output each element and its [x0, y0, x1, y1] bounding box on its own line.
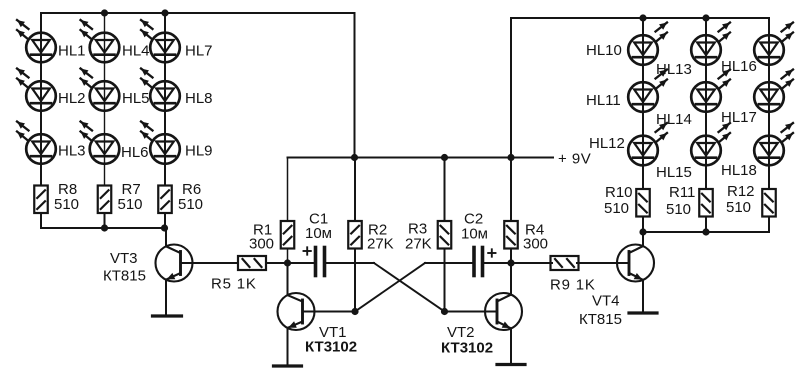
label R10 value	[604, 200, 629, 217]
label R4	[525, 222, 544, 239]
LED HL9	[141, 122, 180, 164]
wire left LED column 1	[40, 13, 42, 186]
svg-text:HL1: HL1	[58, 43, 86, 60]
label VT4	[592, 293, 620, 310]
node junction top-right col2	[702, 14, 709, 21]
label HL8	[185, 90, 213, 107]
wire rail link x511 to top bus	[510, 18, 512, 158]
svg-text:R12: R12	[727, 183, 755, 200]
svg-text:10м: 10м	[305, 225, 332, 242]
label R3 value 27K	[405, 236, 432, 253]
svg-text:HL9: HL9	[185, 143, 213, 160]
resistor R8 510	[34, 186, 48, 214]
resistor R7 510	[98, 186, 112, 214]
label HL6	[121, 144, 149, 161]
label +9V	[558, 151, 591, 168]
label R1 value 300	[249, 236, 274, 253]
svg-text:300: 300	[249, 236, 274, 253]
wire left LED column 3	[164, 13, 166, 186]
svg-text:HL11: HL11	[586, 92, 621, 109]
label R10	[605, 184, 633, 201]
wire node A to C1	[288, 262, 314, 264]
label VT2 type KT3102	[441, 340, 493, 357]
label HL11	[586, 92, 621, 109]
wire C1 to diagonal	[326, 262, 374, 264]
label R3	[408, 221, 427, 238]
LED HL11	[628, 70, 667, 112]
resistor R1 300	[281, 221, 295, 249]
transistor VT3 KT815	[153, 228, 193, 316]
svg-text:27K: 27K	[405, 236, 432, 253]
svg-text:510: 510	[54, 196, 79, 213]
node VT2 base junction	[441, 308, 448, 315]
label VT4 type KT815	[579, 311, 622, 328]
wire node B to R9	[511, 262, 552, 264]
LED HL12	[628, 123, 667, 165]
node VT1 base junction	[351, 308, 358, 315]
label R1	[253, 222, 272, 239]
label HL12	[589, 135, 625, 152]
wire diagonal C1 to VT2 base node	[374, 263, 445, 312]
svg-text:R10: R10	[605, 184, 633, 201]
node junction left bus col3 / VT3 collector	[161, 224, 168, 231]
wire rail to R4	[510, 158, 512, 222]
label R2 value 27K	[367, 236, 394, 253]
label HL17	[721, 109, 757, 126]
svg-text:510: 510	[726, 199, 751, 216]
wire right LED column 2	[705, 18, 707, 189]
wire R5 to node A	[266, 262, 288, 264]
svg-text:510: 510	[178, 196, 203, 213]
wire left LED column 2	[104, 13, 106, 186]
label R8	[58, 181, 77, 198]
svg-text:КТ3102: КТ3102	[305, 339, 357, 356]
resistor R11 510	[699, 189, 713, 217]
resistor R6 510	[158, 186, 172, 214]
resistor R2 27K	[348, 221, 362, 249]
transistor VT4 KT815	[617, 232, 657, 313]
wire right LED column 1	[642, 18, 644, 189]
label VT1 type KT3102	[305, 339, 357, 356]
svg-text:10м: 10м	[461, 226, 488, 243]
resistor R10 510	[636, 189, 650, 217]
label R11 value	[666, 201, 691, 218]
capacitor C1 10u plates	[316, 248, 325, 276]
label R8 value 510	[54, 196, 79, 213]
label C2	[464, 211, 483, 228]
LED HL5	[81, 69, 120, 111]
label R12 value	[726, 199, 751, 216]
label HL4	[122, 43, 150, 60]
label HL10	[586, 42, 622, 59]
LED HL10	[628, 23, 667, 65]
svg-text:КТ815: КТ815	[579, 311, 622, 328]
C2 polarity plus	[488, 249, 495, 256]
wire right LED column 3	[768, 18, 770, 189]
svg-text:КТ3102: КТ3102	[441, 340, 493, 357]
LED HL2	[17, 69, 56, 111]
LED HL17	[754, 70, 793, 112]
wire rail to R3	[444, 158, 446, 222]
label HL2	[58, 90, 86, 107]
svg-text:HL15: HL15	[656, 164, 692, 181]
svg-text:HL8: HL8	[185, 90, 213, 107]
LED HL6	[81, 122, 120, 164]
svg-text:510: 510	[604, 200, 629, 217]
label C1 value 10u	[305, 225, 332, 242]
svg-text:HL5: HL5	[122, 90, 150, 107]
svg-text:VT3: VT3	[110, 250, 138, 267]
node junction top-left col3	[161, 9, 168, 16]
node rail junction R2	[351, 154, 358, 161]
wire R9 to VT4 base	[577, 262, 629, 264]
label HL18	[721, 162, 757, 179]
node junction top-right col1	[639, 14, 646, 21]
svg-text:HL12: HL12	[589, 135, 625, 152]
resistor R12 510	[762, 189, 776, 217]
LED HL7	[141, 20, 180, 62]
wire to C2 left plate	[425, 262, 472, 264]
svg-text:КТ815: КТ815	[103, 268, 146, 285]
label VT3 type KT815	[103, 268, 146, 285]
svg-text:HL10: HL10	[586, 42, 622, 59]
svg-text:R9 1K: R9 1K	[550, 277, 596, 294]
wire left resistor bus	[41, 213, 166, 228]
node junction right bus col1 / VT4 collector	[639, 228, 646, 235]
label HL9	[185, 143, 213, 160]
wire +9V rail	[288, 157, 554, 159]
wire R1 to node A	[287, 249, 289, 264]
svg-text:HL16: HL16	[721, 58, 757, 75]
resistor R4 300	[504, 221, 518, 249]
svg-text:HL13: HL13	[656, 61, 692, 78]
svg-text:VT2: VT2	[447, 324, 475, 341]
label VT3	[110, 250, 138, 267]
node junction right bus col2	[702, 228, 709, 235]
resistor R3 27K	[438, 221, 452, 249]
svg-text:HL7: HL7	[185, 43, 213, 60]
node junction top-left col2	[101, 9, 108, 16]
label R9 1K	[550, 277, 596, 294]
wire R3 to VT2 base node	[444, 249, 446, 312]
node junction left bus col2	[101, 224, 108, 231]
wire right top bus	[511, 17, 769, 19]
LED HL15	[691, 123, 730, 165]
label R7	[122, 181, 141, 198]
LED HL8	[141, 69, 180, 111]
wire diagonal VT1 base node to C2	[355, 263, 425, 312]
svg-text:VT4: VT4	[592, 293, 620, 310]
label R2	[368, 222, 387, 239]
label VT1	[319, 324, 347, 341]
resistor R5 1K	[238, 256, 266, 270]
label HL3	[58, 143, 86, 160]
svg-text:HL14: HL14	[656, 111, 692, 128]
svg-text:HL18: HL18	[721, 162, 757, 179]
label HL1	[58, 43, 86, 60]
wire VT3 base to R5	[181, 262, 239, 264]
LED HL18	[754, 123, 793, 165]
label C1	[309, 211, 328, 228]
label HL7	[185, 43, 213, 60]
LED HL13	[691, 23, 730, 65]
label R11	[669, 184, 695, 201]
node rail junction R3	[441, 154, 448, 161]
label R4 value 300	[523, 236, 548, 253]
wire left top bus	[41, 12, 355, 14]
LED HL1	[17, 20, 56, 62]
wire rail corner down to R1	[287, 158, 289, 222]
transistor VT2 KT3102	[485, 263, 525, 365]
label R6 value 510	[178, 196, 203, 213]
wire rail to R2	[354, 158, 356, 222]
label R12	[727, 183, 755, 200]
svg-text:HL4: HL4	[122, 43, 150, 60]
label R6	[182, 181, 201, 198]
LED HL4	[81, 20, 120, 62]
label HL13	[656, 61, 692, 78]
svg-text:+ 9V: + 9V	[558, 151, 591, 168]
svg-text:300: 300	[523, 236, 548, 253]
LED HL16	[754, 23, 793, 65]
svg-text:HL17: HL17	[721, 109, 757, 126]
LED HL3	[17, 122, 56, 164]
svg-text:HL6: HL6	[121, 144, 149, 161]
wire R2 to VT1 base node	[354, 249, 356, 312]
wire VT2 base wire	[445, 311, 498, 313]
label HL5	[122, 90, 150, 107]
svg-text:HL2: HL2	[58, 90, 86, 107]
capacitor C2 10u plates	[474, 248, 483, 276]
svg-text:R5 1K: R5 1K	[211, 276, 257, 293]
svg-text:510: 510	[118, 196, 143, 213]
wire C2 to node B	[484, 262, 511, 264]
label R7 value 510	[118, 196, 143, 213]
C1 polarity plus	[304, 247, 311, 254]
label VT2	[447, 324, 475, 341]
label C2 value 10u	[461, 226, 488, 243]
svg-text:510: 510	[666, 201, 691, 218]
node A junction R1/R5/C1/VT1-collector	[284, 259, 291, 266]
resistor R9 1K	[551, 256, 579, 270]
LED HL14	[691, 70, 730, 112]
svg-text:HL3: HL3	[58, 143, 86, 160]
label HL16	[721, 58, 757, 75]
label HL14	[656, 111, 692, 128]
svg-text:R11: R11	[669, 184, 695, 201]
wire R4 to node B	[510, 249, 512, 264]
transistor VT1 KT3102	[274, 263, 315, 366]
label HL15	[656, 164, 692, 181]
svg-text:27K: 27K	[367, 236, 394, 253]
wire VT1 base wire	[303, 311, 356, 313]
label R5 1K	[211, 276, 257, 293]
node B junction R4/C2/R9/VT2-collector	[507, 259, 514, 266]
wire top bus to rail link x354.5	[354, 13, 356, 158]
wire right resistor bus	[643, 217, 769, 233]
node rail junction R4	[507, 154, 514, 161]
